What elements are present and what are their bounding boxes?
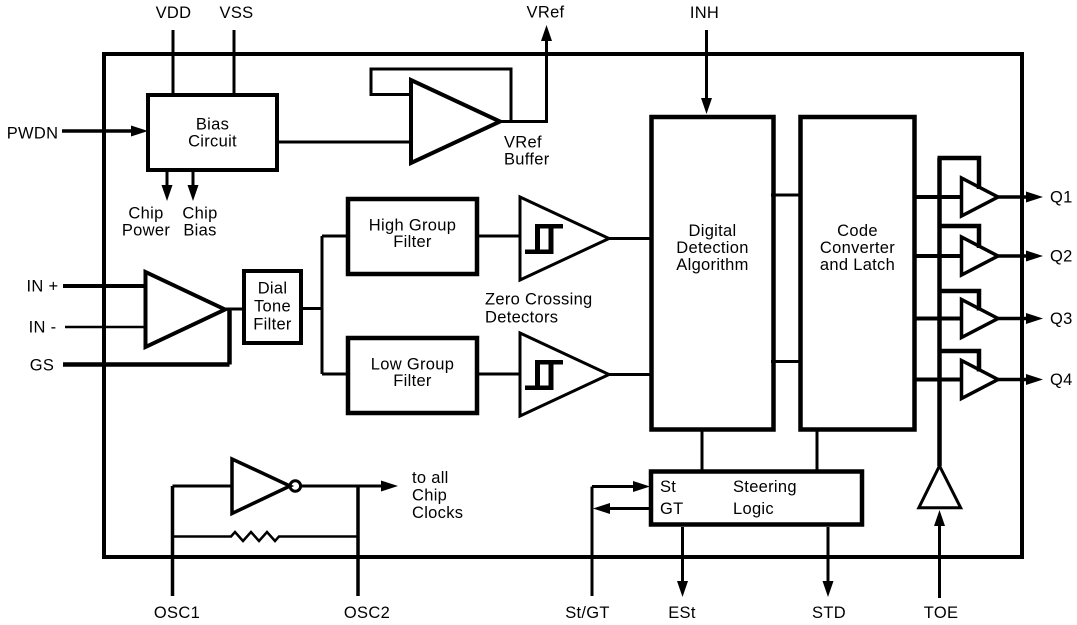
label to all Chip Clocks: [412, 469, 463, 522]
label Chip Power: [122, 205, 170, 240]
wire digital detection to steering logic: [701, 429, 704, 471]
wire oscillator output to chip clocks arrow: [301, 481, 398, 492]
wire dial tone filter output split to band filters: [301, 236, 348, 374]
svg-text:Code: Code: [837, 222, 878, 240]
wire input amp output: [225, 308, 244, 311]
zero crossing detector 2 (schmitt comparator): [520, 333, 609, 416]
wire VSS stub: [233, 30, 236, 95]
svg-text:STD: STD: [812, 604, 846, 622]
low group filter block B4: [348, 338, 477, 413]
svg-text:Q4: Q4: [1050, 371, 1073, 389]
svg-text:Low Group: Low Group: [371, 356, 454, 374]
svg-text:VSS: VSS: [220, 4, 254, 22]
svg-text:OSC1: OSC1: [154, 604, 200, 622]
oscillator inverter U4: [232, 459, 290, 514]
pin VRef arrowhead: [541, 25, 552, 41]
svg-text:High Group: High Group: [369, 217, 456, 235]
wire ZC1 to digital detection: [609, 237, 651, 240]
svg-text:GS: GS: [30, 357, 54, 375]
svg-text:Q1: Q1: [1050, 189, 1073, 207]
label VRef Buffer: [504, 134, 550, 169]
resistor R1 oscillator feedback: [173, 532, 359, 541]
wire OSC2 pin stub: [356, 486, 360, 596]
wire OSC1 pin stub: [171, 486, 175, 596]
wire INH with arrowhead into digital detection: [701, 30, 712, 114]
zero crossing detector 1 (schmitt comparator): [520, 197, 609, 280]
chip outer boundary: [104, 54, 1022, 557]
wire STD arrow: [823, 527, 834, 597]
svg-text:ESt: ESt: [668, 604, 696, 622]
wire detection to converter upper: [771, 194, 802, 197]
svg-text:IN -: IN -: [29, 319, 57, 337]
enable bus from TOE buffer: [937, 158, 942, 466]
svg-text:Filter: Filter: [253, 316, 292, 334]
svg-text:Chip: Chip: [412, 487, 447, 505]
svg-text:Zero Crossing: Zero Crossing: [485, 291, 593, 309]
svg-text:OSC2: OSC2: [344, 604, 390, 622]
wire detection to converter lower: [771, 360, 802, 363]
svg-text:St: St: [660, 478, 676, 496]
svg-text:GT: GT: [660, 500, 684, 518]
svg-text:IN +: IN +: [27, 278, 59, 296]
wire IN+: [63, 284, 146, 288]
output buffer Q4: [915, 351, 1043, 399]
svg-text:Filter: Filter: [393, 372, 432, 390]
svg-text:Q3: Q3: [1050, 310, 1073, 328]
wire inverter input: [173, 485, 233, 488]
svg-text:Chip: Chip: [128, 205, 163, 223]
svg-text:Tone: Tone: [254, 298, 291, 316]
wire code converter to steering logic: [816, 429, 819, 471]
svg-text:Filter: Filter: [393, 233, 432, 251]
bias circuit block B1: [148, 95, 277, 170]
oscillator inverter bubble: [290, 481, 301, 492]
wire ZC2 to digital detection: [609, 373, 651, 376]
svg-text:Bias: Bias: [183, 222, 216, 240]
svg-text:Buffer: Buffer: [504, 151, 550, 169]
op-amp VRef buffer U1: [411, 80, 500, 163]
wire GT output arrow: [593, 503, 650, 514]
code converter and latch block B6: [801, 117, 915, 430]
wire PWDN with arrowhead into bias circuit: [62, 126, 148, 137]
wire low group filter to zero crossing detector 2: [477, 373, 520, 376]
digital detection algorithm block B5: [652, 117, 774, 430]
output buffer Q3: [915, 291, 1043, 338]
svg-text:Q2: Q2: [1050, 248, 1073, 266]
wire VRef buffer output: [500, 41, 547, 122]
high group filter block B3: [348, 199, 477, 274]
svg-text:Digital: Digital: [689, 222, 737, 240]
svg-text:Bias: Bias: [196, 116, 229, 134]
wire VDD stub: [172, 30, 175, 95]
svg-text:and Latch: and Latch: [820, 256, 895, 274]
wire IN-: [65, 326, 146, 329]
svg-text:Chip: Chip: [182, 205, 217, 223]
label Zero Crossing Detectors: [485, 291, 593, 327]
svg-text:VRef: VRef: [504, 134, 542, 152]
label Chip Bias: [182, 205, 217, 240]
svg-text:Converter: Converter: [820, 239, 895, 257]
svg-text:Circuit: Circuit: [188, 133, 237, 151]
svg-text:Steering: Steering: [733, 478, 797, 496]
chip power arrow: [162, 170, 173, 201]
output buffer Q2: [915, 226, 1043, 275]
wire VRef buffer feedback loop: [371, 69, 511, 122]
svg-text:Detection: Detection: [676, 239, 748, 257]
output buffer Q1: [915, 158, 1043, 216]
svg-text:St/GT: St/GT: [565, 604, 610, 622]
svg-text:INH: INH: [690, 4, 719, 22]
svg-text:Logic: Logic: [733, 500, 774, 518]
wire St input arrow: [592, 481, 650, 492]
wire TOE with arrowhead: [934, 510, 945, 598]
TOE enable buffer U3: [919, 466, 961, 508]
wire input amp feedback to GS: [227, 309, 232, 365]
svg-text:Power: Power: [122, 222, 170, 240]
svg-text:Clocks: Clocks: [412, 504, 463, 522]
wire ESt arrow: [677, 527, 688, 597]
svg-text:Algorithm: Algorithm: [676, 256, 748, 274]
svg-text:to all: to all: [412, 469, 449, 487]
wire GS: [63, 362, 230, 367]
svg-text:Detectors: Detectors: [485, 309, 558, 327]
wire high group filter to zero crossing detector 1: [477, 235, 520, 238]
dial tone filter block B2: [244, 271, 301, 343]
chip bias arrow: [188, 170, 199, 201]
steering logic block B7: [651, 472, 862, 525]
svg-text:VRef: VRef: [527, 4, 565, 22]
svg-text:VDD: VDD: [156, 4, 192, 22]
wire St/GT pin stub: [591, 487, 594, 597]
svg-text:PWDN: PWDN: [7, 125, 59, 143]
svg-text:TOE: TOE: [924, 604, 959, 622]
op-amp input amplifier U2: [146, 272, 226, 347]
svg-text:Dial: Dial: [258, 280, 288, 298]
wire bias circuit output to VRef buffer: [277, 141, 411, 144]
